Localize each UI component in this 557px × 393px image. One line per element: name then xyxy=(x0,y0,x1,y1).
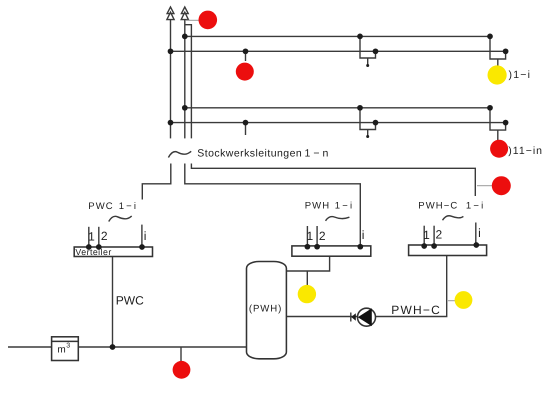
svg-text:1−i: 1−i xyxy=(466,201,486,212)
svg-text:(PWH): (PWH) xyxy=(249,303,282,314)
svg-text:1−i: 1−i xyxy=(335,201,355,212)
svg-text:2: 2 xyxy=(319,229,326,243)
svg-text:i: i xyxy=(144,229,147,243)
svg-text:1: 1 xyxy=(88,230,95,244)
svg-text:i: i xyxy=(362,228,365,242)
svg-text:Verteiler: Verteiler xyxy=(75,247,111,257)
svg-text:PWH−C: PWH−C xyxy=(418,201,458,212)
svg-text:2: 2 xyxy=(436,228,443,242)
svg-text:PWC: PWC xyxy=(116,293,144,307)
svg-text:1: 1 xyxy=(423,228,430,242)
svg-text:)1−i: )1−i xyxy=(509,69,532,81)
svg-text:1−n: 1−n xyxy=(305,148,332,160)
svg-text:PWH: PWH xyxy=(305,201,330,212)
svg-text:)11−in: )11−in xyxy=(508,145,543,157)
svg-text:PWH−C: PWH−C xyxy=(391,303,441,317)
svg-text:PWC: PWC xyxy=(88,201,113,212)
svg-text:m: m xyxy=(57,344,65,355)
svg-text:3: 3 xyxy=(66,342,70,349)
svg-text:1: 1 xyxy=(307,229,314,243)
svg-text:1−i: 1−i xyxy=(119,201,138,212)
svg-text:i: i xyxy=(478,226,481,240)
svg-text:2: 2 xyxy=(101,229,108,243)
svg-text:Stockwerksleitungen: Stockwerksleitungen xyxy=(197,148,302,160)
